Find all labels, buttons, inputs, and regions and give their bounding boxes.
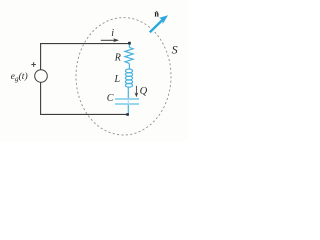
svg-text:L: L	[114, 74, 121, 85]
svg-text:Q: Q	[140, 86, 148, 97]
plus polarity mark	[31, 62, 36, 67]
wire stub junction to resistor	[128, 45, 130, 48]
current arrow i	[101, 39, 115, 41]
node B (bottom junction dot)	[126, 113, 129, 116]
wire stub inductor to capacitor	[127, 87, 129, 98]
node A (top junction dot)	[128, 42, 131, 45]
surface S (dashed ellipse)	[76, 18, 171, 135]
capacitor C	[115, 99, 139, 104]
svg-text:eg(t): eg(t)	[11, 71, 28, 83]
svg-text:S: S	[172, 43, 178, 57]
wire stub resistor to inductor	[128, 63, 130, 69]
svg-text:R: R	[114, 53, 121, 64]
wire stub capacitor to bottom wire	[127, 105, 129, 114]
normal vector n-hat arrow	[150, 20, 163, 33]
svg-text:n̂: n̂	[154, 10, 159, 19]
charge arrow down	[135, 86, 137, 94]
svg-text:i: i	[111, 28, 114, 39]
svg-text:C: C	[107, 93, 114, 104]
inductor L	[125, 69, 132, 87]
resistor R	[125, 47, 133, 63]
wire segment between capacitor plates	[127, 99, 129, 104]
wire: top + left + bottom loop	[41, 44, 130, 115]
voltage source e_g(t)	[35, 70, 48, 83]
